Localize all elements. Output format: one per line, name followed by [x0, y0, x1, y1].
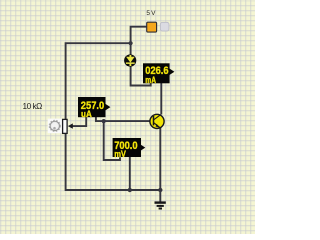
- svg-text:mA: mA: [145, 75, 156, 85]
- microammeter M2 display 257.0 uA: [78, 97, 110, 119]
- wire: microammeter left lead down to wiper wire: [72, 117, 87, 126]
- svg-text:V: V: [151, 10, 156, 17]
- ammeter M1 display 026.6 mA: [143, 63, 174, 85]
- wire: LED bottom to ammeter bottom-left lead: [131, 66, 151, 85]
- power supply terminal (gray, unused): [160, 22, 169, 31]
- LED D1: [124, 54, 136, 66]
- wire: branch left from junction down to potentiometer top: [66, 43, 131, 120]
- wire: 5V supply to top corner: [131, 27, 147, 55]
- wire: voltmeter right lead down to ground rail: [129, 157, 131, 190]
- svg-text:10 kΩ: 10 kΩ: [23, 102, 43, 111]
- voltmeter M3 display 700.0 mV: [113, 138, 146, 159]
- node junction J3: [128, 188, 132, 192]
- wire: ammeter out lead down to transistor collector: [160, 83, 162, 115]
- wire: junction down to voltmeter left lead: [104, 121, 120, 160]
- node junction J2: [102, 119, 106, 123]
- potentiometer wiper arrow: [68, 123, 73, 128]
- node junction J1: [129, 41, 133, 45]
- wire: potentiometer bottom to ground rail, rail to ground stem: [66, 133, 161, 190]
- transistor Q1 (NPN): [150, 114, 164, 128]
- svg-text:mV: mV: [114, 149, 126, 159]
- potentiometer knob (gear): [48, 119, 62, 134]
- svg-text:5: 5: [146, 10, 150, 17]
- ground symbol: [155, 201, 166, 209]
- wire: microammeter right lead to transistor base: [96, 117, 150, 121]
- power supply terminal 5V (orange): [147, 22, 157, 32]
- node junction J4: [158, 188, 162, 192]
- wire: transistor emitter down to ground: [159, 128, 161, 202]
- svg-text:uA: uA: [81, 109, 92, 119]
- potentiometer R1 body: [63, 119, 68, 133]
